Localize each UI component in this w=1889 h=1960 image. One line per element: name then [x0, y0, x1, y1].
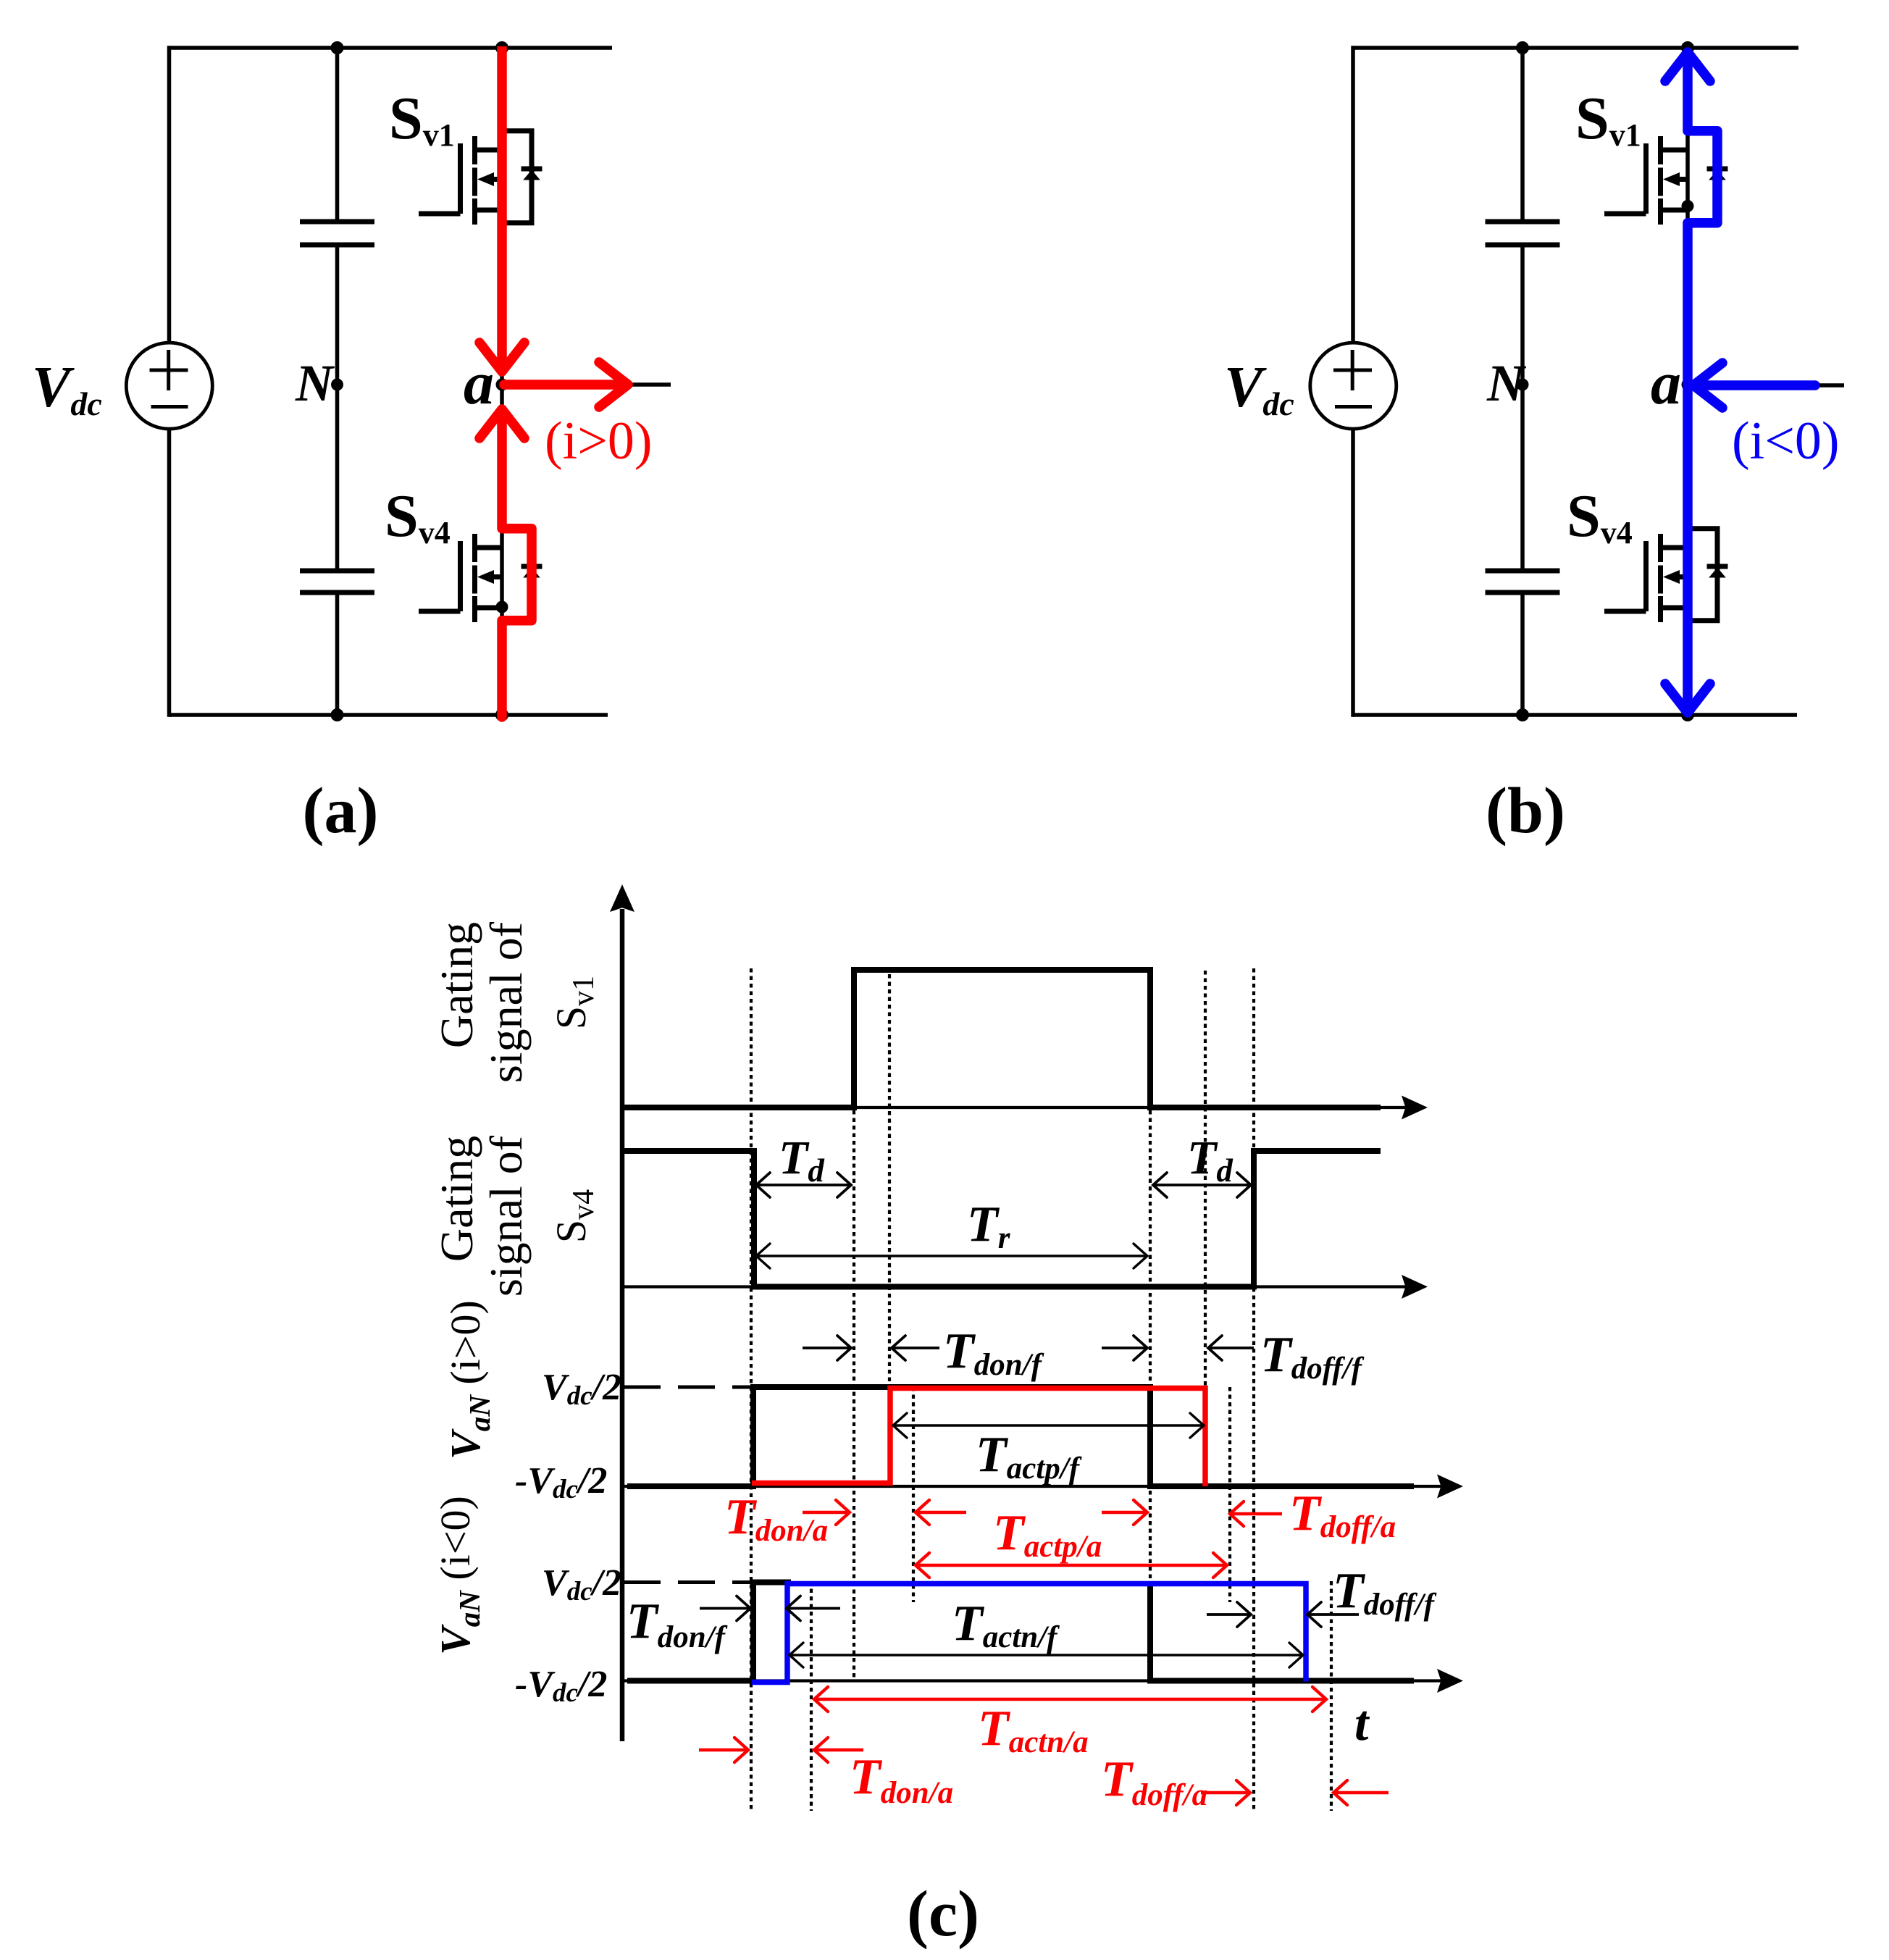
svg-text:a: a: [464, 350, 494, 417]
svg-text:(b): (b): [1486, 775, 1565, 847]
svg-text:(i>0): (i>0): [545, 411, 653, 471]
svg-text:(i<0): (i<0): [1732, 411, 1840, 471]
svg-text:N: N: [295, 354, 335, 412]
svg-text:(c): (c): [907, 1878, 979, 1950]
svg-text:Gating: Gating: [431, 922, 482, 1048]
svg-text:signal of: signal of: [480, 921, 532, 1083]
svg-text:VaN (i>0): VaN (i>0): [442, 1300, 496, 1459]
svg-text:signal of: signal of: [480, 1135, 532, 1297]
svg-text:(a): (a): [303, 775, 379, 847]
svg-text:N: N: [1486, 354, 1527, 412]
svg-text:Gating: Gating: [431, 1136, 482, 1262]
svg-text:t: t: [1354, 1696, 1370, 1751]
svg-text:VaN (i<0): VaN (i<0): [432, 1496, 486, 1655]
svg-text:a: a: [1651, 350, 1681, 417]
